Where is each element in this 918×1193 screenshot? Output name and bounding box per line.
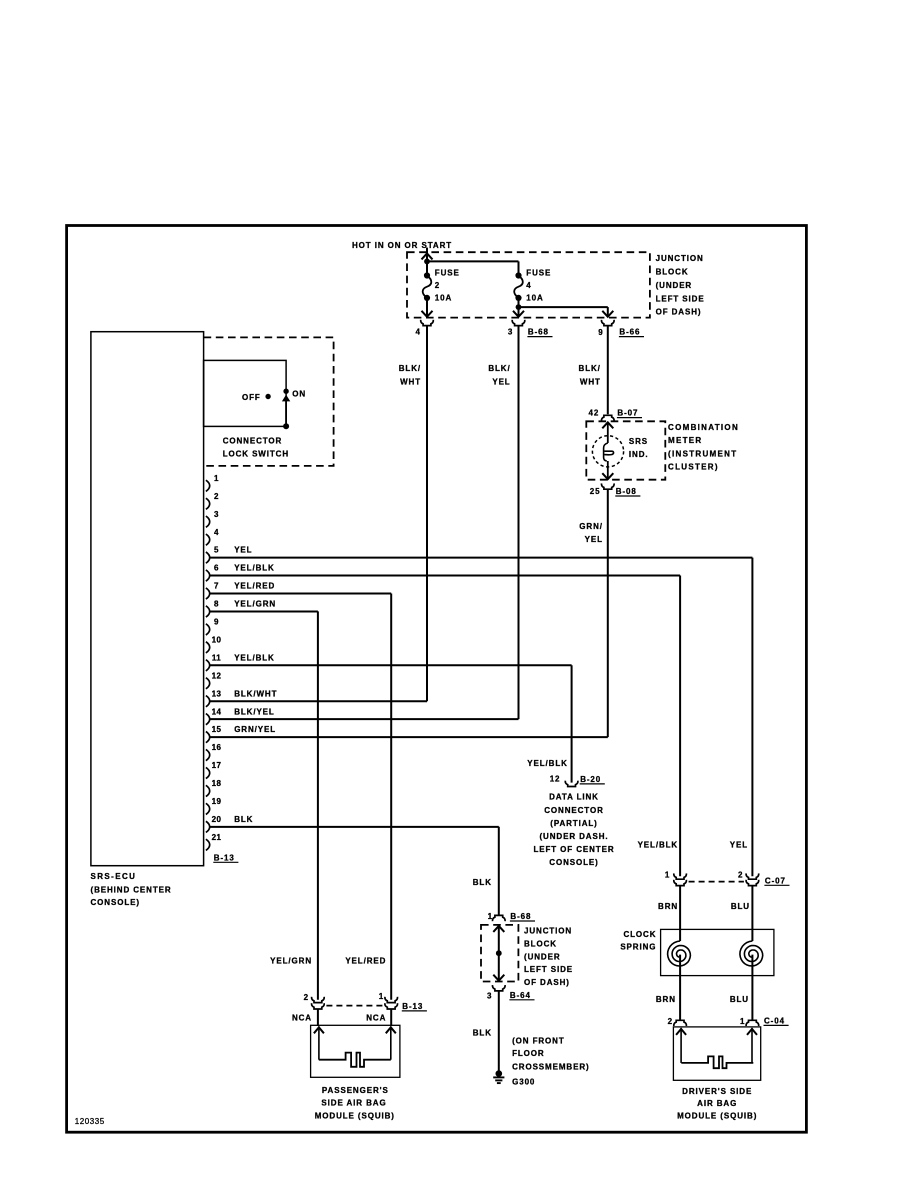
svg-text:MODULE (SQUIB): MODULE (SQUIB) [315,1111,395,1120]
svg-text:4: 4 [526,281,531,290]
svg-text:(UNDER DASH.: (UNDER DASH. [539,832,608,841]
svg-text:DRIVER'S SIDE: DRIVER'S SIDE [682,1087,752,1096]
svg-text:7: 7 [214,582,219,591]
svg-text:FUSE: FUSE [435,269,460,278]
svg-text:JUNCTION: JUNCTION [656,254,704,263]
svg-text:CONNECTOR: CONNECTOR [544,806,604,815]
svg-text:21: 21 [212,833,222,842]
svg-text:NCA: NCA [366,1013,386,1022]
svg-text:2: 2 [435,281,440,290]
svg-text:16: 16 [212,743,222,752]
svg-text:4: 4 [214,528,219,537]
svg-text:10: 10 [212,635,222,644]
svg-text:SRS-ECU: SRS-ECU [91,872,137,881]
svg-text:LOCK SWITCH: LOCK SWITCH [223,449,289,458]
svg-text:YEL/BLK: YEL/BLK [234,653,275,662]
svg-text:2: 2 [738,871,743,880]
svg-text:CLUSTER): CLUSTER) [668,463,719,472]
svg-text:MODULE (SQUIB): MODULE (SQUIB) [677,1111,757,1120]
svg-text:18: 18 [212,779,222,788]
svg-text:METER: METER [668,436,703,445]
svg-text:BLOCK: BLOCK [524,939,557,948]
svg-text:25: 25 [590,487,601,496]
svg-text:1: 1 [214,474,219,483]
svg-text:BLK/WHT: BLK/WHT [234,689,277,698]
svg-text:C-07: C-07 [765,876,786,885]
svg-text:WHT: WHT [400,377,421,386]
svg-text:WHT: WHT [580,377,601,386]
svg-text:12: 12 [550,775,561,784]
svg-text:BLU: BLU [730,995,749,1004]
svg-text:20: 20 [212,815,222,824]
svg-text:10A: 10A [526,293,543,302]
svg-text:OFF: OFF [242,393,261,402]
svg-text:B-08: B-08 [616,487,637,496]
svg-text:(UNDER: (UNDER [656,281,693,290]
svg-text:1: 1 [740,1017,745,1026]
svg-text:YEL: YEL [234,546,252,555]
svg-text:(BEHIND CENTER: (BEHIND CENTER [91,885,172,894]
svg-text:2: 2 [214,492,219,501]
svg-text:YEL/BLK: YEL/BLK [638,841,679,850]
svg-text:17: 17 [212,761,222,770]
svg-text:HOT IN ON OR START: HOT IN ON OR START [352,241,452,250]
svg-text:BLK: BLK [473,1029,492,1038]
svg-text:AIR BAG: AIR BAG [697,1099,737,1108]
svg-text:JUNCTION: JUNCTION [524,927,572,936]
svg-text:SPRING: SPRING [620,942,656,951]
svg-text:4: 4 [415,328,420,337]
svg-text:CLOCK: CLOCK [623,930,656,939]
svg-text:YEL/GRN: YEL/GRN [270,957,312,966]
svg-text:BLK: BLK [234,815,253,824]
svg-text:GRN/: GRN/ [579,522,603,531]
svg-text:BLK: BLK [473,878,492,887]
svg-text:3: 3 [214,510,219,519]
svg-text:BLK/YEL: BLK/YEL [234,707,275,716]
svg-text:3: 3 [508,328,513,337]
svg-text:OF DASH): OF DASH) [656,308,702,317]
svg-text:(PARTIAL): (PARTIAL) [550,819,598,828]
svg-text:YEL/RED: YEL/RED [234,582,275,591]
svg-text:GRN/YEL: GRN/YEL [234,725,276,734]
svg-text:(UNDER: (UNDER [524,952,561,961]
svg-text:42: 42 [588,409,599,418]
svg-text:BLK/: BLK/ [399,364,421,373]
svg-text:2: 2 [668,1017,673,1026]
svg-text:CROSSMEMBER): CROSSMEMBER) [512,1063,589,1072]
svg-text:1: 1 [379,992,384,1001]
svg-text:(INSTRUMENT: (INSTRUMENT [668,449,737,458]
svg-text:YEL: YEL [585,535,603,544]
svg-text:CONNECTOR: CONNECTOR [223,436,283,445]
svg-text:8: 8 [214,600,219,609]
svg-text:IND.: IND. [629,450,649,459]
svg-text:BRN: BRN [658,902,678,911]
svg-text:13: 13 [212,689,222,698]
svg-text:PASSENGER'S: PASSENGER'S [322,1086,389,1095]
svg-text:BRN: BRN [656,995,676,1004]
svg-text:11: 11 [212,653,221,662]
svg-text:YEL/RED: YEL/RED [345,957,386,966]
svg-text:B-66: B-66 [619,328,640,337]
svg-text:10A: 10A [435,293,452,302]
svg-text:B-20: B-20 [580,775,601,784]
svg-text:1: 1 [665,871,670,880]
svg-text:CONSOLE): CONSOLE) [549,858,598,867]
svg-text:6: 6 [214,564,219,573]
svg-text:OF DASH): OF DASH) [524,978,570,987]
svg-text:NCA: NCA [292,1013,312,1022]
svg-text:LEFT SIDE: LEFT SIDE [656,294,705,303]
svg-text:DATA LINK: DATA LINK [549,793,599,802]
svg-text:19: 19 [212,797,222,806]
svg-text:15: 15 [212,725,222,734]
svg-text:B-13: B-13 [402,1002,423,1011]
svg-text:LEFT OF CENTER: LEFT OF CENTER [533,845,614,854]
svg-text:C-04: C-04 [764,1016,785,1025]
svg-text:SIDE AIR BAG: SIDE AIR BAG [321,1099,386,1108]
svg-text:BLOCK: BLOCK [656,268,689,277]
svg-text:YEL: YEL [730,841,748,850]
svg-text:5: 5 [214,546,219,555]
svg-text:G300: G300 [512,1077,535,1086]
svg-text:COMBINATION: COMBINATION [668,423,739,432]
svg-text:2: 2 [304,993,309,1002]
svg-text:FLOOR: FLOOR [512,1049,545,1058]
svg-text:(ON FRONT: (ON FRONT [512,1037,565,1046]
svg-text:YEL/BLK: YEL/BLK [527,759,568,768]
svg-text:SRS: SRS [629,437,648,446]
svg-text:ON: ON [292,390,306,399]
svg-text:B-07: B-07 [617,409,638,418]
svg-text:14: 14 [212,707,222,716]
svg-text:9: 9 [214,618,219,627]
svg-text:YEL/BLK: YEL/BLK [234,564,275,573]
svg-text:BLK/: BLK/ [488,364,510,373]
svg-text:3: 3 [487,992,492,1001]
svg-text:B-68: B-68 [528,328,549,337]
svg-text:YEL/GRN: YEL/GRN [234,600,276,609]
svg-text:B-68: B-68 [510,912,531,921]
svg-text:YEL: YEL [492,377,510,386]
svg-text:B-64: B-64 [510,991,531,1000]
svg-text:9: 9 [598,328,603,337]
svg-text:CONSOLE): CONSOLE) [91,898,140,907]
svg-text:12: 12 [212,671,222,680]
svg-text:LEFT SIDE: LEFT SIDE [524,965,573,974]
svg-text:120335: 120335 [75,1117,105,1126]
svg-text:BLK/: BLK/ [579,364,601,373]
svg-text:B-13: B-13 [214,853,235,862]
svg-text:BLU: BLU [731,902,750,911]
svg-text:FUSE: FUSE [526,269,551,278]
